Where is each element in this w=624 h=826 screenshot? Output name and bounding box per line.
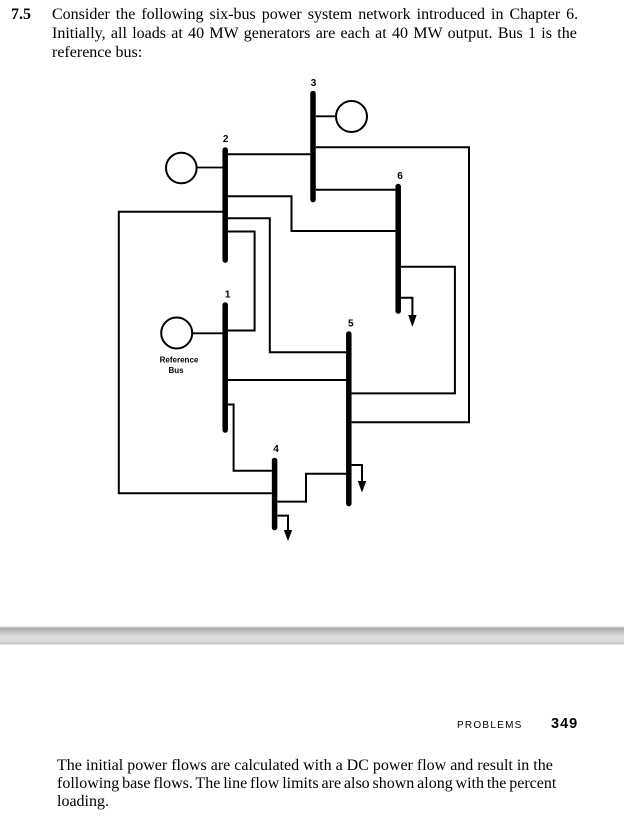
bus 2: [222, 150, 228, 260]
generator G1 circle (reference): [161, 318, 192, 349]
wire line 2-3: [228, 153, 310, 155]
wire line 1-2: [228, 232, 255, 331]
svg-text:5: 5: [348, 319, 354, 330]
generator G1 lead: [192, 332, 223, 334]
svg-text:4: 4: [273, 444, 279, 455]
bus 3: [310, 94, 316, 200]
generator G3 lead: [316, 115, 336, 117]
wire line 3-6: [316, 189, 396, 191]
svg-text:Reference: Reference: [160, 356, 199, 365]
load arrowhead bus 6: [408, 315, 416, 327]
bus 4: [272, 461, 278, 528]
generator G3 circle: [336, 101, 367, 132]
svg-text:2: 2: [223, 134, 229, 145]
svg-text:Bus: Bus: [168, 366, 184, 375]
wire line 3-5: [316, 147, 469, 422]
wire line 2-5: [228, 218, 346, 352]
wire line 4-5: [277, 474, 346, 502]
load on bus 5 wire: [352, 465, 362, 482]
svg-text:6: 6: [397, 171, 403, 182]
generator G2 lead: [197, 167, 223, 169]
bus 1: [222, 305, 228, 430]
wire line 2-4: [119, 212, 272, 494]
load arrowhead bus 4: [284, 530, 292, 541]
svg-text:1: 1: [225, 290, 231, 301]
load arrowhead bus 5: [358, 481, 366, 493]
wire line 6-5: [352, 267, 455, 394]
bus 5: [346, 334, 352, 504]
load on bus 6 wire: [401, 298, 412, 316]
wire line 1-5: [228, 379, 346, 381]
load on bus 4 wire: [277, 516, 288, 531]
generator G2 circle: [166, 153, 197, 184]
bus 6: [395, 187, 401, 312]
wire line 2-6: [228, 196, 396, 231]
svg-text:3: 3: [311, 78, 317, 89]
wire line 1-4: [228, 405, 272, 471]
